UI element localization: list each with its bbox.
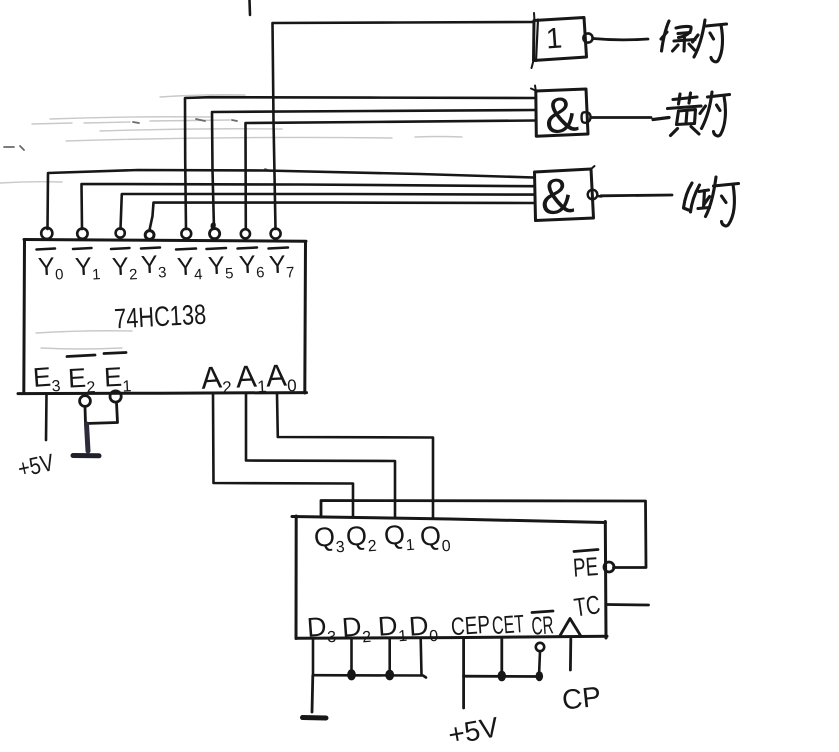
pin Y2 (116, 228, 125, 237)
svg-text:PE: PE (572, 551, 599, 583)
wire: Y3 to gate G3 input (150, 203, 534, 231)
wire: Y5 to gate G2 input (212, 110, 536, 229)
svg-text:+5V: +5V (446, 711, 502, 750)
wire: E2/E1 junction to ground (85, 403, 118, 452)
counter U2 body (292, 516, 607, 639)
svg-text:TC: TC (572, 589, 602, 622)
wire: TC stub (607, 603, 649, 606)
svg-text:Y5: Y5 (207, 251, 234, 283)
clock pin symbol (560, 619, 581, 637)
wire: CR to +5V bus (539, 652, 540, 677)
pin Y4 (181, 229, 191, 239)
svg-text:+5V: +5V (16, 449, 57, 483)
svg-text:A1: A1 (235, 358, 267, 398)
svg-text:A0: A0 (265, 357, 297, 397)
svg-text:Y1: Y1 (74, 252, 101, 284)
svg-text:Q1: Q1 (383, 519, 415, 556)
pin Y1 (77, 228, 87, 238)
label Y6 (238, 248, 265, 283)
label Y4 (176, 249, 203, 285)
wire: Y1 to gate G3 input (82, 184, 534, 229)
label E2 (67, 355, 96, 398)
pin Y3 (145, 231, 154, 240)
svg-text:CR: CR (531, 611, 555, 640)
wire: Y0 to gate G3 input (48, 170, 534, 229)
svg-text:D2: D2 (341, 611, 372, 648)
svg-text:74HC138: 74HC138 (113, 299, 206, 335)
label E1 (103, 353, 132, 397)
pin bubble PE (604, 562, 614, 572)
wire: G2 output to 黄灯 (591, 116, 651, 119)
svg-text:CET: CET (491, 610, 525, 640)
svg-text:Y3: Y3 (140, 250, 167, 282)
svg-text:D3: D3 (306, 611, 337, 648)
label CR (531, 611, 555, 641)
label Y0 (37, 249, 64, 285)
wire: Y2 to gate G3 input (121, 194, 534, 229)
label 黄灯 (yellow light) (653, 92, 730, 136)
svg-text:D1: D1 (377, 610, 408, 647)
svg-text:&: & (538, 167, 576, 226)
svg-text:CEP: CEP (450, 611, 491, 642)
svg-text:A2: A2 (200, 359, 233, 399)
pin bubble E2 (80, 396, 91, 407)
wire: G1 output to 绿灯 (593, 39, 648, 40)
wire: D3 net to ground bus (313, 639, 426, 678)
junction: D1 on bus (385, 670, 394, 681)
svg-text:CP: CP (561, 681, 603, 716)
wire: A0 to counter Q0 (277, 394, 433, 518)
svg-text:Y7: Y7 (268, 250, 295, 282)
pin Y6 (241, 229, 250, 238)
junction: CR on bus (536, 671, 544, 681)
wire: A2 to counter Q2 (213, 394, 353, 517)
label Y1 (73, 248, 101, 284)
wire: CP to clock pin (569, 639, 572, 670)
NAND gate G2 (yellow) (531, 86, 588, 137)
svg-text:&: & (541, 85, 581, 145)
label 绿灯 (green light) (661, 20, 727, 62)
label 红灯 (red light) (684, 177, 739, 226)
svg-text:E3: E3 (32, 361, 61, 397)
svg-text:Y4: Y4 (176, 252, 203, 284)
junction: CET on bus (498, 671, 506, 682)
label Y7 (268, 248, 295, 283)
label PE (572, 550, 599, 583)
wire: bus to ground (311, 676, 315, 713)
wire: Y7 to gate G1 input (273, 22, 535, 229)
pin bubble CR (536, 643, 544, 651)
junction: D2 on bus (347, 669, 356, 680)
wire: G3 output to 红灯 (601, 194, 672, 198)
svg-text:E2: E2 (67, 362, 96, 397)
ground (E2/E1) (73, 453, 99, 458)
svg-text:Q3: Q3 (313, 521, 345, 558)
wire: A1 to counter Q1 (246, 394, 395, 517)
label Y5 (207, 248, 234, 283)
svg-text:Y0: Y0 (37, 252, 64, 284)
inverter gate G1 (green) (532, 13, 587, 68)
svg-text:Y6: Y6 (238, 250, 265, 282)
wire: E3 to +5V (45, 394, 48, 440)
svg-text:D0: D0 (408, 610, 439, 647)
output bubble G2 (582, 112, 591, 123)
label Y2 (111, 248, 138, 284)
pin Y7 (271, 229, 281, 239)
wire: Y6 to gate G2 input (246, 121, 536, 230)
svg-text:Y2: Y2 (111, 252, 138, 284)
pin Y5 (210, 224, 220, 239)
wire: stray CP line at top (248, 0, 251, 15)
ground (D pins) (303, 715, 327, 721)
decoder U1 74HC138 body (18, 240, 307, 394)
label Y3 (140, 248, 167, 283)
NAND gate G3 (red) (535, 166, 595, 221)
pin bubble E1 (110, 391, 121, 402)
svg-text:Q0: Q0 (419, 520, 451, 557)
wire: Y4 to gate G2 input (185, 97, 536, 229)
output bubble G1 (583, 33, 592, 42)
wire: CEP to +5V (464, 639, 540, 709)
svg-text:1: 1 (545, 22, 563, 55)
wire: Q3 to PE (321, 501, 646, 568)
pin Y0 (41, 228, 52, 239)
svg-text:Q2: Q2 (345, 520, 377, 557)
output bubble G3 (588, 190, 602, 200)
